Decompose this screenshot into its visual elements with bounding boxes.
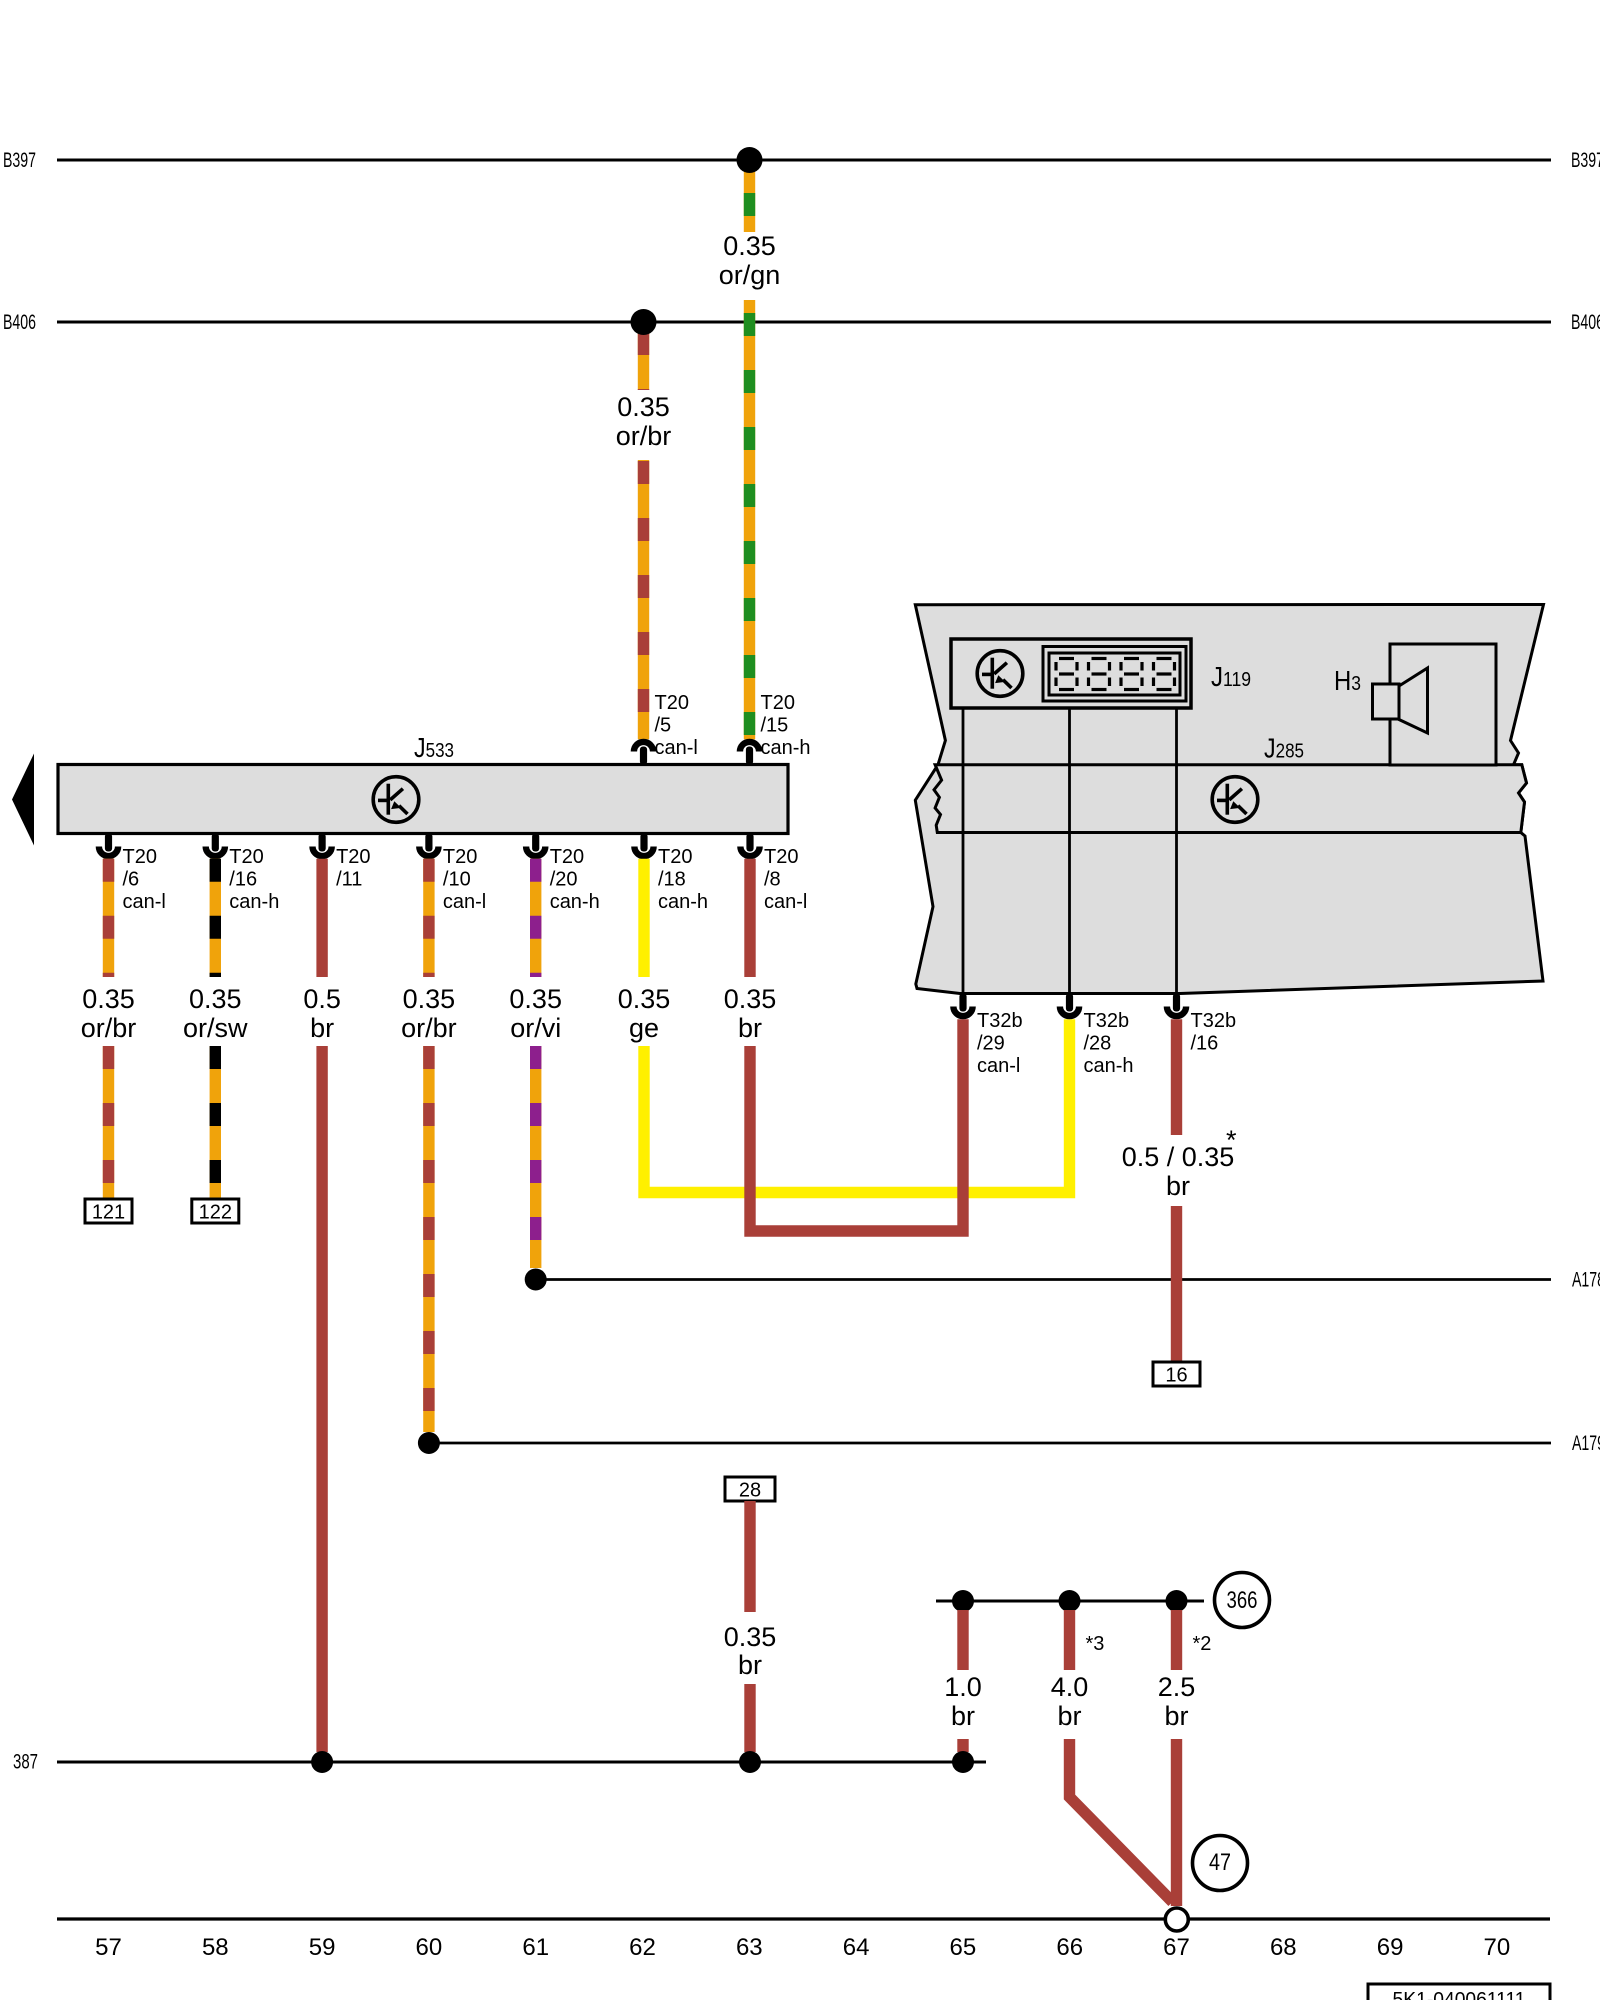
svg-text:br: br xyxy=(1164,1701,1188,1731)
svg-text:/29: /29 xyxy=(977,1033,1005,1055)
svg-text:66: 66 xyxy=(1056,1934,1083,1961)
svg-text:or/sw: or/sw xyxy=(183,1013,248,1043)
svg-text:/16: /16 xyxy=(229,869,257,891)
svg-text:0.35: 0.35 xyxy=(509,984,562,1014)
svg-text:A179: A179 xyxy=(1572,1432,1600,1455)
svg-text:57: 57 xyxy=(95,1934,122,1961)
svg-text:0.35: 0.35 xyxy=(82,984,135,1014)
svg-text:1.0: 1.0 xyxy=(944,1672,982,1702)
svg-text:can-h: can-h xyxy=(761,737,811,759)
svg-text:47: 47 xyxy=(1209,1849,1231,1876)
svg-text:387: 387 xyxy=(13,1751,38,1774)
svg-text:*3: *3 xyxy=(1086,1633,1105,1655)
svg-text:T20: T20 xyxy=(336,846,370,868)
svg-text:T20: T20 xyxy=(229,846,263,868)
svg-text:5K1-040061111: 5K1-040061111 xyxy=(1393,1989,1526,2000)
svg-text:0.5 / 0.35: 0.5 / 0.35 xyxy=(1122,1142,1235,1172)
svg-text:122: 122 xyxy=(199,1202,232,1224)
svg-text:br: br xyxy=(310,1013,334,1043)
svg-text:64: 64 xyxy=(843,1934,870,1961)
svg-text:60: 60 xyxy=(416,1934,443,1961)
svg-text:B397: B397 xyxy=(1571,149,1600,172)
svg-text:T32b: T32b xyxy=(1084,1010,1130,1032)
svg-text:can-l: can-l xyxy=(123,891,166,913)
svg-text:or/gn: or/gn xyxy=(719,260,781,290)
svg-text:366: 366 xyxy=(1227,1587,1258,1614)
svg-text:/5: /5 xyxy=(655,715,672,737)
svg-text:4.0: 4.0 xyxy=(1051,1672,1089,1702)
svg-text:16: 16 xyxy=(1165,1365,1187,1387)
svg-text:28: 28 xyxy=(739,1480,761,1502)
svg-text:B406: B406 xyxy=(3,311,36,334)
svg-text:or/br: or/br xyxy=(401,1013,457,1043)
svg-text:T20: T20 xyxy=(764,846,798,868)
svg-text:can-l: can-l xyxy=(764,891,807,913)
svg-text:67: 67 xyxy=(1163,1934,1190,1961)
svg-text:br: br xyxy=(738,1650,762,1680)
svg-text:T20: T20 xyxy=(655,692,689,714)
svg-text:121: 121 xyxy=(92,1202,125,1224)
svg-text:0.35: 0.35 xyxy=(724,1622,777,1652)
svg-text:65: 65 xyxy=(950,1934,977,1961)
svg-text:0.35: 0.35 xyxy=(189,984,242,1014)
svg-text:0.35: 0.35 xyxy=(723,231,776,261)
svg-text:or/vi: or/vi xyxy=(510,1013,561,1043)
svg-text:can-h: can-h xyxy=(229,891,279,913)
svg-text:/28: /28 xyxy=(1084,1033,1112,1055)
svg-text:br: br xyxy=(1057,1701,1081,1731)
svg-text:59: 59 xyxy=(309,1934,336,1961)
svg-text:/10: /10 xyxy=(443,869,471,891)
svg-text:br: br xyxy=(1166,1171,1190,1201)
svg-text:0.35: 0.35 xyxy=(617,392,670,422)
svg-text:T32b: T32b xyxy=(977,1010,1023,1032)
svg-text:B406: B406 xyxy=(1571,311,1600,334)
svg-text:62: 62 xyxy=(629,1934,656,1961)
svg-text:/18: /18 xyxy=(658,869,686,891)
svg-text:ge: ge xyxy=(629,1013,659,1043)
svg-text:63: 63 xyxy=(736,1934,763,1961)
svg-text:T20: T20 xyxy=(550,846,584,868)
svg-text:/8: /8 xyxy=(764,869,781,891)
svg-text:T20: T20 xyxy=(761,692,795,714)
svg-text:/11: /11 xyxy=(336,869,362,891)
svg-text:*: * xyxy=(1226,1125,1237,1155)
svg-text:or/br: or/br xyxy=(81,1013,137,1043)
svg-text:can-l: can-l xyxy=(443,891,486,913)
svg-text:69: 69 xyxy=(1377,1934,1404,1961)
svg-text:can-h: can-h xyxy=(550,891,600,913)
svg-text:2.5: 2.5 xyxy=(1158,1672,1196,1702)
svg-text:A178: A178 xyxy=(1572,1269,1600,1292)
svg-text:/16: /16 xyxy=(1191,1033,1219,1055)
svg-text:or/br: or/br xyxy=(616,421,672,451)
svg-text:can-l: can-l xyxy=(655,737,698,759)
svg-text:br: br xyxy=(951,1701,975,1731)
svg-text:can-h: can-h xyxy=(1084,1055,1134,1077)
svg-text:0.35: 0.35 xyxy=(724,984,777,1014)
svg-text:B397: B397 xyxy=(3,149,36,172)
svg-text:58: 58 xyxy=(202,1934,229,1961)
svg-text:/15: /15 xyxy=(761,715,789,737)
svg-text:T20: T20 xyxy=(658,846,692,868)
svg-text:70: 70 xyxy=(1484,1934,1511,1961)
svg-text:can-l: can-l xyxy=(977,1055,1020,1077)
svg-text:0.5: 0.5 xyxy=(303,984,341,1014)
svg-text:T32b: T32b xyxy=(1191,1010,1237,1032)
svg-text:/20: /20 xyxy=(550,869,578,891)
svg-text:T20: T20 xyxy=(443,846,477,868)
svg-text:T20: T20 xyxy=(123,846,157,868)
svg-text:61: 61 xyxy=(522,1934,549,1961)
svg-text:can-h: can-h xyxy=(658,891,708,913)
svg-text:/6: /6 xyxy=(123,869,140,891)
svg-text:*2: *2 xyxy=(1193,1633,1212,1655)
svg-text:68: 68 xyxy=(1270,1934,1297,1961)
svg-text:br: br xyxy=(738,1013,762,1043)
svg-text:0.35: 0.35 xyxy=(403,984,456,1014)
svg-text:0.35: 0.35 xyxy=(618,984,671,1014)
